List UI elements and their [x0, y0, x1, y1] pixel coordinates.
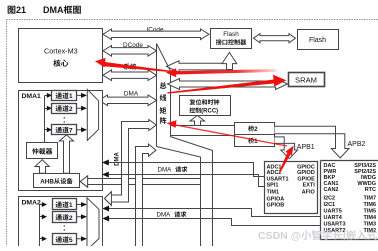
wire channel feed line DMA1 [45, 96, 48, 143]
svg-text:GPIOE: GPIOE [297, 176, 315, 182]
DMA2 channel 2 [53, 212, 77, 223]
red annotation arrow to SRAM [168, 79, 277, 93]
wire ch7 up arrow [59, 135, 73, 173]
svg-text:CAN2: CAN2 [324, 187, 339, 193]
svg-text:TIM4: TIM4 [363, 215, 376, 221]
wire tube A DMA2 master bus [105, 120, 157, 206]
svg-text:USART3: USART3 [324, 222, 346, 228]
Flash interface controller [211, 29, 252, 49]
svg-text:5: 5 [69, 237, 73, 244]
wire matrix to flash-if tube + up arrow [167, 61, 231, 73]
wire DMA2 request line 2 [109, 219, 321, 226]
wire AHB tube to DMA1 slave [80, 176, 200, 187]
memory SRAM [289, 73, 325, 87]
svg-text:SPI2/I2S: SPI2/I2S [354, 169, 376, 175]
title 图21 [8, 6, 16, 14]
svg-text:GPIOA: GPIOA [267, 196, 285, 202]
svg-text:GPIOD: GPIOD [297, 170, 315, 176]
svg-text:TIM6: TIM6 [363, 202, 376, 208]
svg-text:GPIOB: GPIOB [267, 203, 285, 209]
svg-text:EXTI: EXTI [303, 182, 316, 188]
wire DMA2 request line 1 [109, 209, 321, 217]
svg-text:DMA: DMA [124, 91, 139, 98]
svg-text:1: 1 [69, 93, 73, 100]
bus matrix 总线矩阵 band [156, 44, 158, 147]
svg-text:2: 2 [69, 215, 73, 222]
svg-text:DMA: DMA [157, 212, 172, 219]
APB2 peripherals box [321, 161, 378, 240]
DMA1 channel 7 [52, 125, 77, 135]
wire ICode bus arrow [103, 29, 209, 40]
AHB slave AHB从设备 [34, 174, 80, 188]
svg-text:1: 1 [69, 202, 73, 209]
DMA2 controller block [19, 197, 103, 247]
red annotation thin arrow to matrix bend [174, 125, 288, 146]
svg-text:UART4: UART4 [324, 215, 343, 221]
svg-text:RTC: RTC [365, 187, 376, 193]
wire bridge1 to APB1 [275, 137, 298, 159]
svg-text:DMA: DMA [43, 5, 64, 15]
svg-text:TIM3: TIM3 [363, 222, 376, 228]
mux trapezoid DMA1 [87, 89, 98, 140]
svg-text:USART1: USART1 [267, 176, 289, 182]
svg-text:(RCC): (RCC) [201, 109, 218, 115]
svg-text:TIM7: TIM7 [363, 196, 376, 202]
svg-text:1: 1 [254, 138, 258, 145]
wire system bus arrow 系统 [103, 70, 157, 81]
bus matrix label [160, 82, 167, 89]
mux trapezoid DMA2 [87, 198, 99, 250]
svg-text:2: 2 [254, 126, 258, 133]
svg-text:I2C2: I2C2 [324, 196, 336, 202]
wire DMA1 request line 2 [109, 175, 265, 187]
wire DCode bus arrow [103, 46, 157, 57]
svg-text:TIM5: TIM5 [363, 209, 376, 215]
wire up arrow to RCC [190, 115, 205, 125]
svg-text:ICode: ICode [146, 27, 163, 34]
DMA1 controller block [19, 91, 103, 191]
svg-text:AHB: AHB [40, 178, 54, 185]
APB1 peripherals box [265, 162, 318, 214]
wire ch outputs to mux DMA1 [76, 95, 82, 129]
DMA2 channel 1 [53, 199, 77, 210]
node 系统 label [124, 64, 130, 70]
DMA1 channel 1 [52, 91, 77, 101]
svg-text:Flash: Flash [309, 37, 326, 44]
arbiter 仲裁器 [27, 143, 58, 159]
svg-text:Cortex-M3: Cortex-M3 [44, 47, 78, 56]
svg-text:|: | [343, 230, 346, 242]
svg-text:APB1: APB1 [297, 144, 315, 151]
wire channel feed line DMA2 [40, 205, 43, 247]
svg-text:DMA: DMA [158, 167, 173, 174]
svg-text:CSDN @: CSDN @ [258, 230, 301, 242]
wire up arrow into flash-if [222, 52, 237, 69]
svg-text:DCode: DCode [123, 42, 143, 49]
red annotation arrow to bus matrix (fading) [175, 69, 278, 75]
svg-text:DMA: DMA [115, 152, 121, 166]
DMA2 channel 5 [53, 234, 77, 245]
svg-text:SRAM: SRAM [295, 75, 317, 84]
DMA1 channel 2 [52, 104, 77, 114]
wire DMA1 master bus arrow [99, 95, 157, 106]
wire DMA1 request line 1 [109, 163, 265, 177]
svg-text:Flash: Flash [223, 31, 239, 38]
wire tube B AHB system bus down [136, 144, 157, 246]
svg-text:APB2: APB2 [348, 141, 366, 148]
svg-text:2: 2 [69, 106, 73, 113]
svg-text:UART5: UART5 [324, 209, 342, 215]
wire matrix to bridges tube [171, 126, 235, 136]
bridge 1 [235, 135, 275, 147]
svg-text:DMA1: DMA1 [22, 93, 41, 100]
svg-text:PWR: PWR [324, 169, 337, 175]
red annotation arrow to APB1 label [279, 153, 290, 172]
svg-text:SPI1: SPI1 [267, 182, 279, 188]
RCC reset & clock control [180, 96, 231, 116]
svg-text:I2C1: I2C1 [324, 202, 336, 208]
wire tube A arrowhead over DMA2 [105, 192, 112, 205]
wire bridge2 to APB2 [275, 126, 350, 158]
memory Flash [298, 30, 339, 50]
wire matrix to SRAM arrow [168, 79, 288, 90]
wire flash-if to flash arrow [254, 34, 296, 43]
svg-text:DMA2: DMA2 [22, 200, 41, 207]
Cortex-M3 core U-core [19, 29, 103, 83]
svg-text:TIM1: TIM1 [267, 190, 280, 196]
svg-text:AFIO: AFIO [302, 190, 316, 196]
svg-text:ADC2: ADC2 [267, 170, 282, 176]
svg-text:21: 21 [16, 5, 26, 15]
red annotation arrow to core [103, 62, 172, 73]
wire arbiter up arrow [35, 160, 49, 174]
bridge 2 [235, 123, 275, 135]
wire ch outputs to mux DMA2 [76, 205, 82, 239]
svg-text:7: 7 [69, 128, 73, 135]
